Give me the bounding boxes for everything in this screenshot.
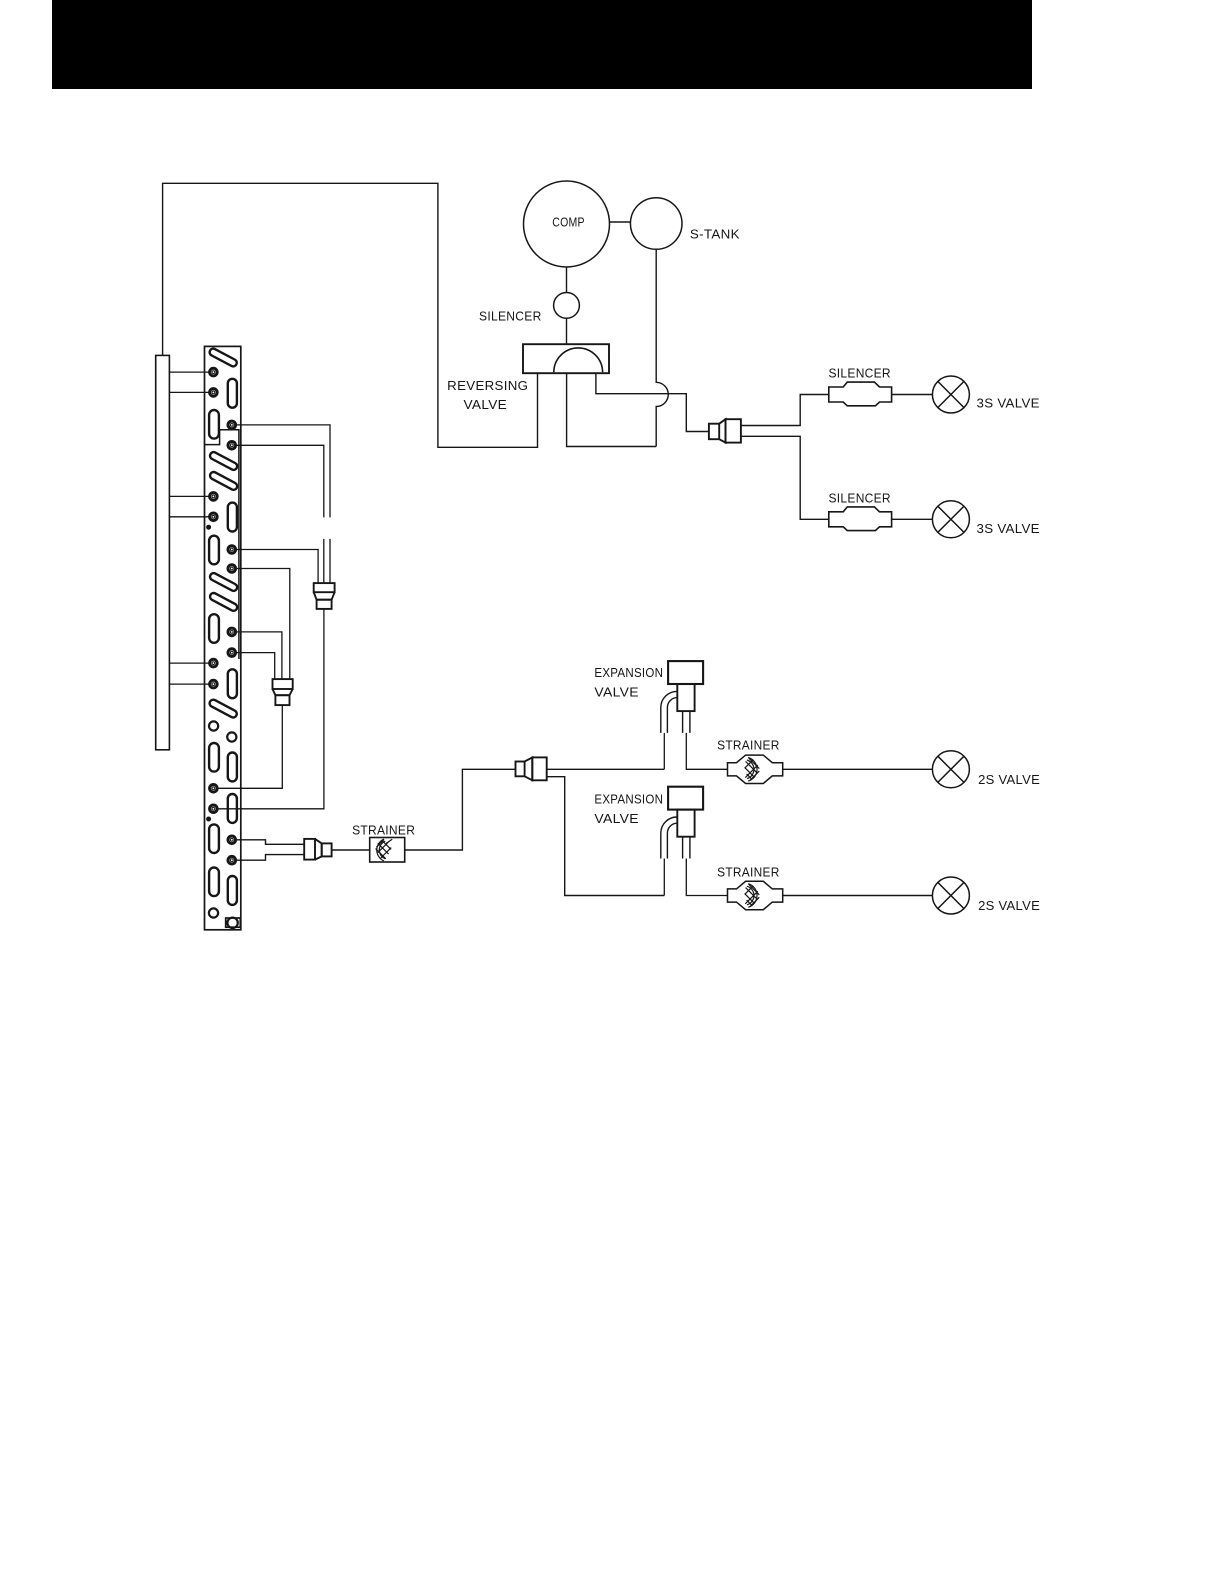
expansion valve 1 — [661, 661, 703, 733]
svg-text:VALVE: VALVE — [594, 811, 639, 826]
reversing valve body — [523, 344, 609, 373]
silencer (discharge, small circle) — [554, 293, 580, 319]
svg-text:2S VALVE: 2S VALVE — [978, 898, 1040, 913]
pipe: silencer 1 to 3S valve 1 — [892, 394, 933, 396]
pipe: coil port R3 to distributor A — [236, 550, 319, 584]
pipe: distributor B output to coil port L7 — [217, 705, 282, 788]
strainer 1 (2S branch) — [728, 755, 783, 783]
pipe: reducer C to strainer — [332, 849, 370, 851]
strainer screen mesh (box type) — [376, 839, 393, 861]
header bar (redacted title block) — [52, 0, 1032, 89]
pipes: header bar to coil ports — [169, 372, 209, 684]
coil tube ports: left column — [210, 368, 218, 812]
pipe: distributor to silencer 2 — [741, 436, 829, 519]
svg-text:3S VALVE: 3S VALVE — [977, 396, 1040, 411]
silencer 2 (3S branch muffler) — [829, 507, 892, 531]
svg-text:EXPANSION: EXPANSION — [594, 665, 663, 680]
2S valve 2 (circle with X) — [932, 877, 969, 914]
svg-text:COMP: COMP — [552, 215, 585, 230]
coil fin slots: right column vertical — [228, 379, 237, 905]
pipe: coil port R2 to distributor A (with break) — [236, 445, 324, 583]
pipe: reducer D to expansion valve 2 inlet — [547, 777, 665, 896]
coil plain hole 2 — [227, 732, 236, 741]
3S valve 2 (circle with X) — [932, 501, 969, 538]
svg-text:REVERSING: REVERSING — [447, 378, 528, 393]
reducer fitting C (liquid line) — [304, 839, 331, 860]
heat exchanger coil panel outline — [205, 346, 241, 929]
coil panel seam notch — [205, 430, 239, 659]
pipe: coil port R6 to distributor B — [236, 653, 275, 680]
suction tank S-TANK — [630, 198, 682, 250]
silencer 1 (3S branch muffler) — [829, 382, 892, 406]
pipe: expansion valve 1 inlet leg — [663, 733, 665, 769]
coil fin slots: left column vertical — [209, 410, 219, 896]
svg-text:STRAINER: STRAINER — [717, 738, 780, 753]
coil header bar (left narrow rectangle) — [156, 355, 170, 749]
pipe: expansion valve 2 inlet leg — [663, 859, 665, 896]
2S valve 1 (circle with X) — [932, 751, 969, 788]
pipe: COMP down to discharge silencer — [566, 267, 568, 293]
liquid header funnel from coil ports R7/R8 — [236, 840, 304, 860]
svg-text:S-TANK: S-TANK — [690, 227, 740, 242]
pipe: distributor to silencer 1 — [741, 395, 829, 426]
svg-text:VALVE: VALVE — [594, 685, 639, 700]
pipe: silencer 2 to 3S valve 2 — [892, 518, 933, 520]
pipe: coil port R5 to distributor B — [236, 632, 282, 679]
distributor B (vertical reducer fitting) — [273, 679, 293, 705]
svg-text:EXPANSION: EXPANSION — [594, 791, 663, 806]
coil corner bracket with hole — [226, 918, 241, 928]
pipe: reversing valve port B to S-TANK line — [567, 373, 657, 446]
svg-text:STRAINER: STRAINER — [717, 865, 780, 880]
svg-text:VALVE: VALVE — [464, 397, 508, 412]
pipe: suction loop from coil header riser to reversing valve port A — [163, 183, 538, 447]
distributor A (vertical reducer fitting) — [314, 583, 335, 609]
svg-text:2S VALVE: 2S VALVE — [978, 772, 1040, 787]
pipe: coil port R1 to distributor A (with break) — [236, 425, 331, 583]
pipe: strainer 1 to 2S valve 1 — [783, 768, 933, 770]
reversing valve slide dome — [554, 348, 603, 372]
coil tube ports: right column — [228, 421, 236, 864]
reducer fitting D (liquid distributor) — [516, 757, 547, 780]
coil plain hole 3 — [209, 908, 218, 917]
3S valve 1 (circle with X) — [932, 376, 969, 413]
pipe: expansion valve 1 outlet to strainer 1 — [686, 733, 727, 769]
pipe: reversing valve port C to distributor — [596, 373, 709, 431]
svg-text:3S VALVE: 3S VALVE — [977, 521, 1040, 536]
coil plain hole 1 — [209, 721, 218, 730]
coil fin slots: diagonal — [208, 347, 238, 718]
pipe: strainer up to reducer D — [405, 769, 516, 850]
coil solder dot upper — [206, 525, 211, 530]
pipe: expansion valve 2 outlet to strainer 2 — [686, 859, 727, 896]
strainer (liquid line, box type) — [370, 838, 405, 863]
expansion valve 2 — [661, 787, 703, 859]
coil solder dot lower — [206, 817, 211, 822]
pipe: reducer D to expansion valve 1 inlet — [547, 768, 665, 770]
pipe: S-TANK down-leg with crossover hop — [656, 249, 668, 446]
svg-text:SILENCER: SILENCER — [829, 491, 891, 506]
pipe: silencer to reversing valve — [566, 318, 568, 344]
pipe: COMP to S-TANK — [609, 221, 630, 223]
pipe: coil port R4 to distributor B — [236, 569, 290, 680]
svg-text:STRAINER: STRAINER — [352, 823, 415, 838]
svg-text:SILENCER: SILENCER — [829, 366, 891, 381]
distributor fitting (hot-gas, horizontal) — [709, 419, 741, 442]
pipe: strainer 2 to 2S valve 2 — [783, 895, 933, 897]
svg-text:SILENCER: SILENCER — [479, 308, 542, 323]
compressor COMP — [524, 181, 610, 267]
strainer 2 (2S branch) — [728, 881, 783, 909]
pipe: distributor A output to coil port L8 — [217, 609, 324, 809]
